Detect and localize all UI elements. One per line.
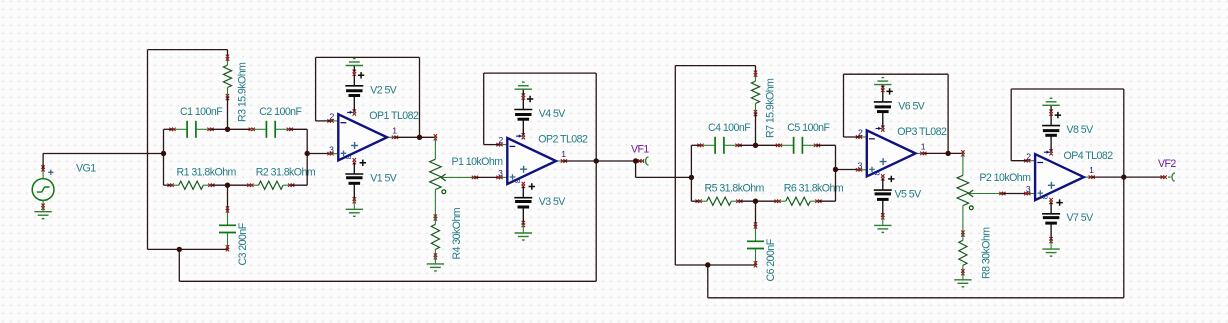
wire OP4 output to VF2 <box>1092 176 1164 178</box>
wire OP2 pin2 feedback box <box>484 73 597 161</box>
capacitor C6 <box>747 201 764 267</box>
svg-text:2: 2 <box>330 112 335 122</box>
capacitor C2 <box>249 121 293 138</box>
svg-text:R8 30kOhm: R8 30kOhm <box>981 227 993 279</box>
wire C1-C2 node link <box>211 128 250 130</box>
op-amp OP1 <box>327 111 398 161</box>
potentiometer P1 <box>430 134 478 220</box>
svg-text:8: 8 <box>344 155 353 159</box>
wire OP3 output <box>923 152 963 154</box>
wire OP1 pin2 feedback box <box>316 57 420 137</box>
wire R1-R2 link <box>211 184 250 186</box>
op-amp OP3 <box>856 127 927 177</box>
node OP3 output <box>945 151 950 156</box>
resistor R5 <box>696 197 743 205</box>
resistor R1 <box>168 181 215 189</box>
wire R5 left stub <box>691 200 698 202</box>
wire OP3 pin2 feedback box <box>844 74 949 153</box>
wire VG1 to input node <box>43 154 163 169</box>
svg-text:P1 10kOhm: P1 10kOhm <box>452 156 504 168</box>
wire inner-right vertical stage1 <box>306 129 308 185</box>
svg-text:3: 3 <box>329 144 334 154</box>
battery V6 <box>874 78 893 132</box>
svg-text:V3 5V: V3 5V <box>539 196 567 208</box>
svg-text:V4 5V: V4 5V <box>539 108 567 120</box>
svg-text:OP3 TL082: OP3 TL082 <box>897 126 947 138</box>
svg-text:C1 100nF: C1 100nF <box>180 106 223 118</box>
op-amp OP2 <box>496 134 567 184</box>
node OP1 output <box>417 135 422 140</box>
wire bootstrap feedback stage2 <box>708 177 1124 298</box>
wire C4 left stub <box>691 144 700 146</box>
svg-text:R7 15.9kOhm: R7 15.9kOhm <box>764 78 776 138</box>
svg-text:R3 15.9kOhm: R3 15.9kOhm <box>236 62 248 122</box>
battery V4 <box>514 82 533 139</box>
svg-text:1: 1 <box>392 125 397 135</box>
wire VF1 to stage2 input <box>636 161 692 177</box>
svg-text:2: 2 <box>858 128 863 138</box>
wire C1 left stub <box>164 128 173 130</box>
svg-text:P2 10kOhm: P2 10kOhm <box>979 172 1031 184</box>
node input stage2 <box>689 175 694 180</box>
wire P2 wiper to OP4 pin3 <box>1002 193 1027 195</box>
wire OP4 pin2 feedback box <box>1011 89 1124 177</box>
terminal VF2 <box>1161 173 1175 181</box>
svg-text:VF1: VF1 <box>631 143 649 155</box>
svg-text:VF2: VF2 <box>1158 158 1176 170</box>
voltage source VG1 <box>32 165 54 211</box>
svg-text:OP4 TL082: OP4 TL082 <box>1064 150 1114 162</box>
svg-text:VG1: VG1 <box>76 162 96 174</box>
resistor R8 <box>954 233 971 287</box>
svg-text:V8 5V: V8 5V <box>1067 124 1095 136</box>
svg-text:8: 8 <box>872 171 881 175</box>
svg-text:V5 5V: V5 5V <box>895 188 923 200</box>
node OP2 output <box>594 158 599 163</box>
node VF1 <box>633 158 638 163</box>
wire R2 to right vertical <box>291 184 307 186</box>
terminal VF1 <box>638 157 649 165</box>
wire P1 wiper to OP2 pin3 <box>475 176 500 178</box>
wire bootstrap feedback stage1 <box>179 161 596 281</box>
battery V1 <box>345 158 366 216</box>
wire inner-left vertical stage1 <box>163 129 165 185</box>
wire inner-right vertical stage2 <box>835 145 837 201</box>
battery V2 <box>345 59 364 116</box>
svg-text:V6 5V: V6 5V <box>898 100 926 112</box>
svg-text:1: 1 <box>561 149 566 159</box>
ground below VG1 <box>34 212 51 219</box>
svg-text:V1 5V: V1 5V <box>370 172 398 184</box>
capacitor C4 <box>697 137 741 154</box>
svg-text:OP1 TL082: OP1 TL082 <box>369 110 419 122</box>
node input stage1 <box>161 151 166 156</box>
wire OP1 output <box>395 136 436 138</box>
wire to OP3 pin3 <box>836 169 860 171</box>
svg-text:3: 3 <box>498 168 503 178</box>
wire R1 left stub <box>164 184 171 186</box>
wire C4-C5 link <box>739 144 780 146</box>
capacitor C1 <box>169 121 213 138</box>
svg-text:R1 31.8kOhm: R1 31.8kOhm <box>177 167 237 179</box>
svg-text:V2 5V: V2 5V <box>370 84 398 96</box>
svg-text:C4 100nF: C4 100nF <box>708 122 751 134</box>
svg-text:1: 1 <box>921 141 926 151</box>
wire C2 to right vertical <box>290 128 307 130</box>
svg-text:V7 5V: V7 5V <box>1067 212 1095 224</box>
op-amp OP4 <box>1024 151 1095 201</box>
svg-text:R6 31.8kOhm: R6 31.8kOhm <box>784 183 844 195</box>
resistor R3 <box>223 50 231 130</box>
node R1-R2-C3 <box>225 183 230 188</box>
capacitor C5 <box>776 137 820 154</box>
node twin-T output stage1 <box>305 151 310 156</box>
svg-text:C2 100nF: C2 100nF <box>259 106 302 118</box>
wire R6 to right vertical <box>818 200 835 202</box>
node C1-C2-R3 <box>225 127 230 132</box>
svg-text:OP2 TL082: OP2 TL082 <box>538 134 588 146</box>
resistor R6 <box>775 197 822 205</box>
wire C5 to right vertical <box>817 144 836 146</box>
svg-text:2: 2 <box>1026 151 1031 161</box>
node twin-T output stage2 <box>833 167 838 172</box>
svg-text:8: 8 <box>1041 195 1050 199</box>
wire OP2 output to VF1 <box>564 160 641 162</box>
node C4-C5-R7 <box>753 143 758 148</box>
potentiometer P2 <box>957 150 1005 236</box>
node bottom loop stage2 <box>705 262 710 267</box>
wire inner-left vertical stage2 <box>690 145 692 201</box>
svg-text:3: 3 <box>858 160 863 170</box>
svg-text:8: 8 <box>513 179 522 183</box>
battery V5 <box>874 174 895 232</box>
wire outer loop stage1 <box>148 50 228 250</box>
resistor R7 <box>751 66 759 146</box>
svg-text:2: 2 <box>499 135 504 145</box>
svg-text:1: 1 <box>1089 165 1094 175</box>
resistor R2 <box>247 181 294 189</box>
wire R5-R6 link <box>739 200 777 202</box>
node bottom loop stage1 <box>177 247 182 252</box>
node R5-R6-C6 <box>753 199 758 204</box>
svg-text:C3 200nF: C3 200nF <box>237 222 249 265</box>
wire to OP1 pin3 <box>307 153 330 155</box>
battery V8 <box>1042 98 1061 155</box>
svg-text:R4 30kOhm: R4 30kOhm <box>451 207 463 259</box>
node OP4 output <box>1121 174 1126 179</box>
resistor R4 <box>427 217 444 271</box>
wire outer loop stage2 <box>675 66 755 265</box>
capacitor C3 <box>219 185 236 251</box>
svg-text:C5 100nF: C5 100nF <box>787 122 830 134</box>
svg-text:3: 3 <box>1026 184 1031 194</box>
svg-text:C6 200nF: C6 200nF <box>765 238 777 281</box>
svg-text:R5 31.8kOhm: R5 31.8kOhm <box>705 183 765 195</box>
battery V3 <box>514 182 535 240</box>
battery V7 <box>1042 198 1063 256</box>
